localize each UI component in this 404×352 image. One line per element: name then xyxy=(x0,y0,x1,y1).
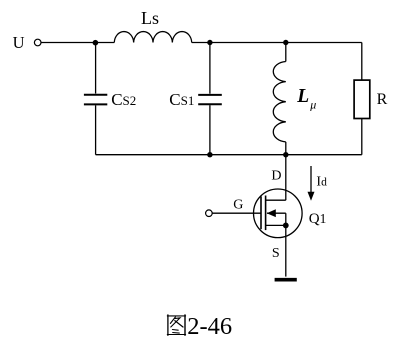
svg-text:U: U xyxy=(13,33,25,52)
svg-text:L: L xyxy=(296,86,309,107)
svg-text:G: G xyxy=(233,197,243,212)
svg-text:D: D xyxy=(271,169,281,184)
svg-text:Q1: Q1 xyxy=(309,211,327,227)
svg-text:CS2: CS2 xyxy=(111,90,136,109)
svg-text:2-46: 2-46 xyxy=(187,313,232,340)
svg-text:R: R xyxy=(377,91,388,108)
svg-text:Id: Id xyxy=(316,174,327,189)
svg-text:CS1: CS1 xyxy=(169,90,194,109)
svg-text:Ls: Ls xyxy=(141,8,159,28)
svg-text:μ: μ xyxy=(309,98,316,112)
svg-text:S: S xyxy=(272,246,280,261)
